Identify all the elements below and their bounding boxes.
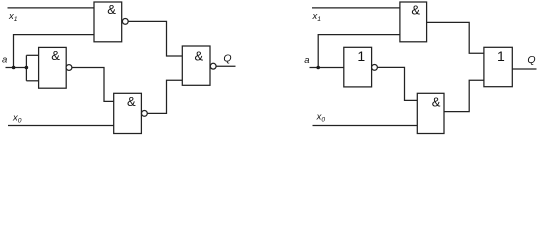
- svg-text:a: a: [2, 54, 7, 65]
- svg-text:&: &: [127, 94, 136, 109]
- svg-text:Q: Q: [527, 54, 535, 66]
- svg-text:&: &: [411, 2, 420, 17]
- svg-text:&: &: [51, 48, 60, 63]
- svg-text:&: &: [195, 48, 204, 63]
- svg-text:a: a: [304, 55, 309, 66]
- svg-text:&: &: [107, 2, 116, 17]
- svg-text:Q: Q: [223, 53, 231, 65]
- svg-text:&: &: [432, 94, 441, 109]
- svg-text:1: 1: [497, 48, 505, 64]
- svg-text:1: 1: [357, 48, 365, 64]
